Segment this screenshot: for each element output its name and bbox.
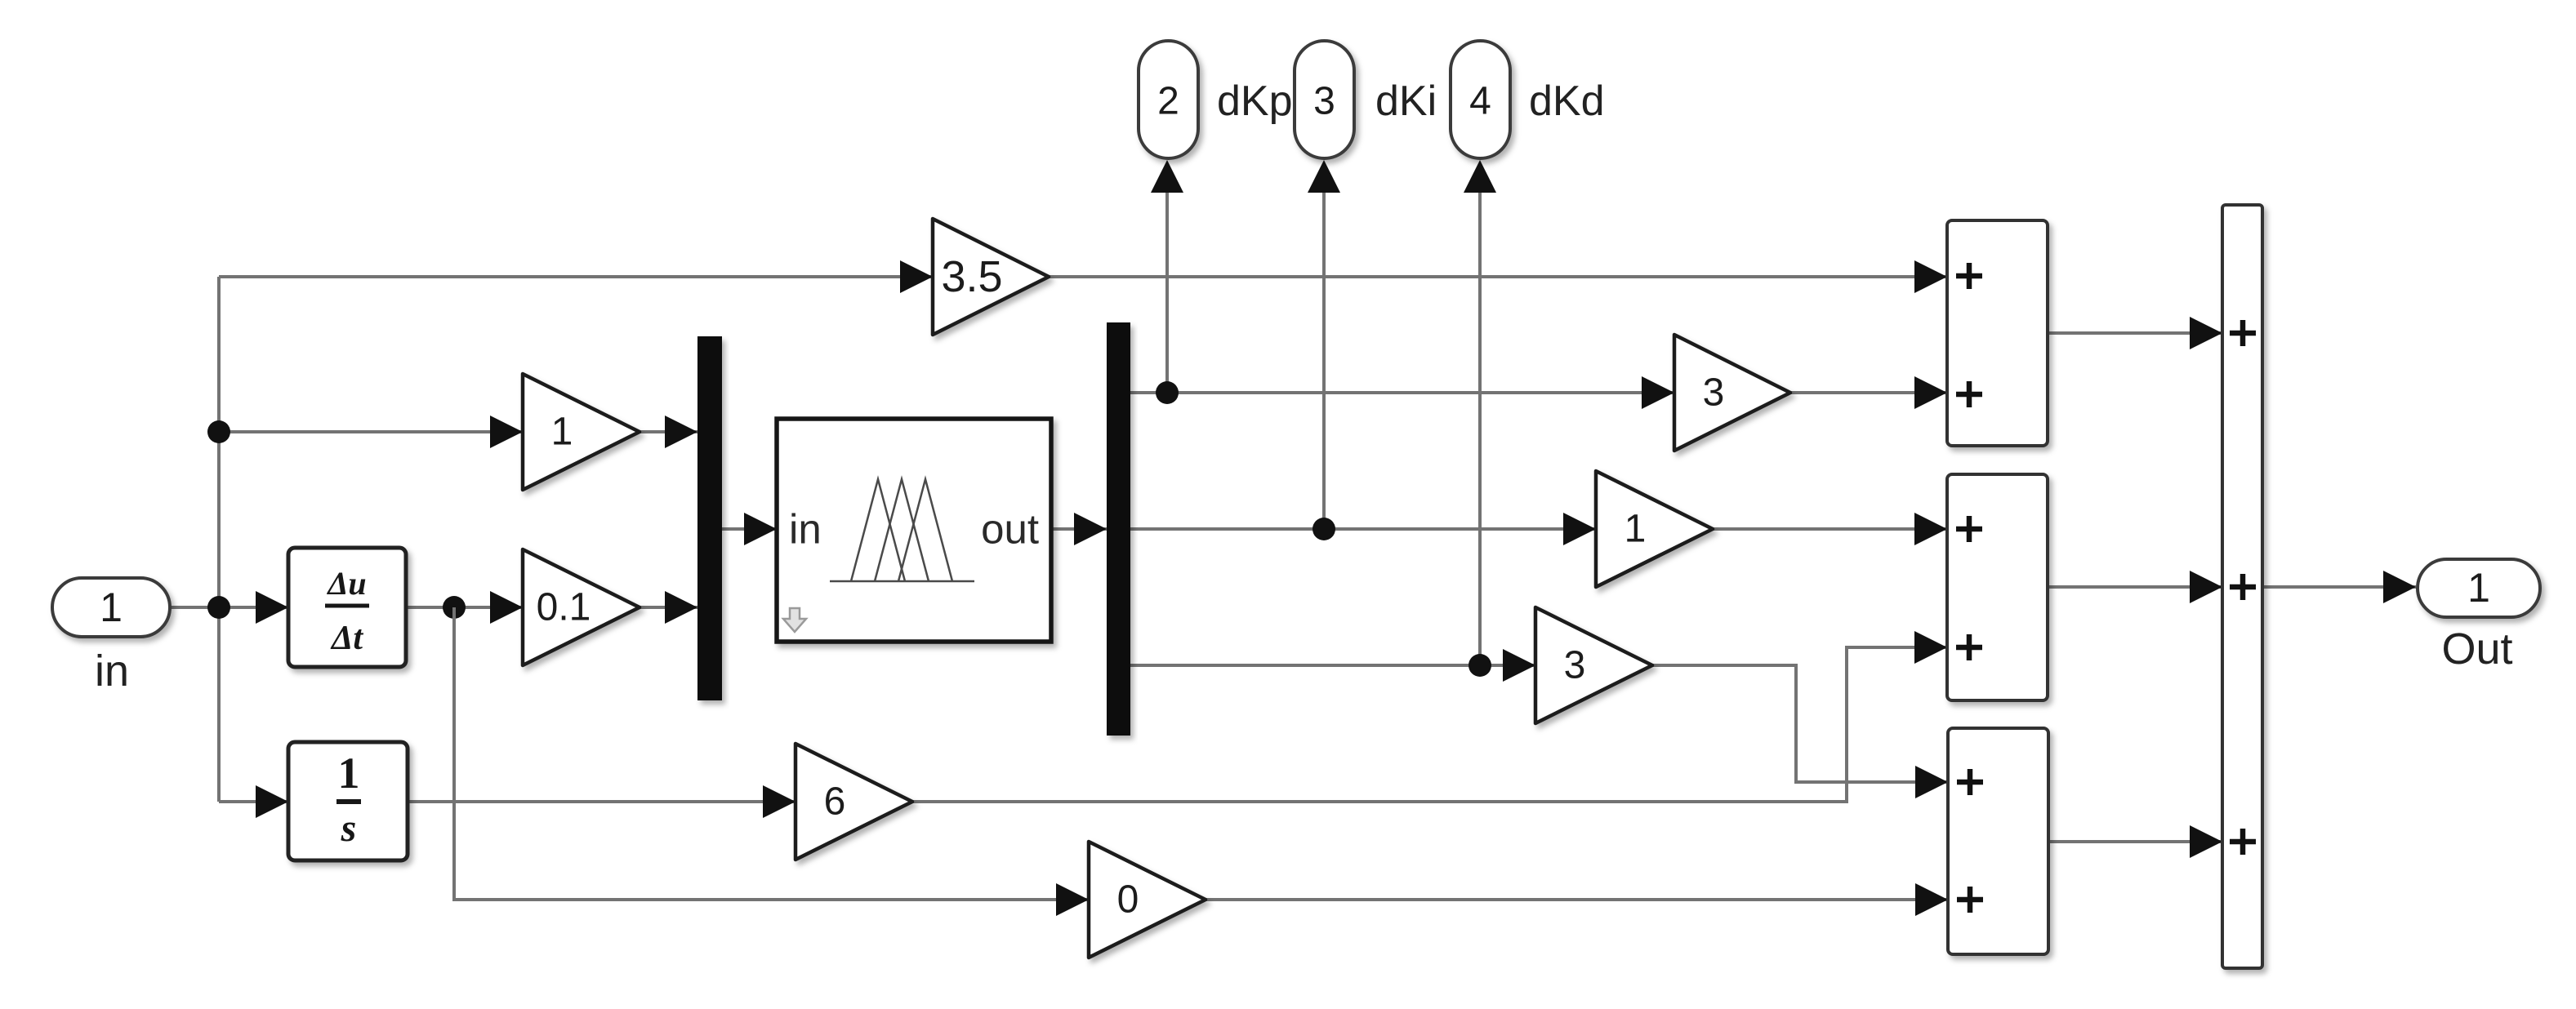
wire: Demux out 1 to Gain G3 (3) (1130, 376, 1674, 409)
sum Add1 (1947, 220, 2048, 446)
gain K1 (3.5) (933, 219, 1049, 335)
wire: trunk to Integrator 1/s (219, 785, 288, 818)
svg-text:dKd: dKd (1529, 78, 1605, 125)
derivative block Delta-u/Delta-t (288, 548, 406, 667)
svg-text:s: s (341, 807, 357, 850)
gain G2 (0.1) (523, 549, 640, 665)
wire: Mux out to Fuzzy Logic Controller in (722, 513, 777, 545)
svg-text:Δu: Δu (326, 565, 366, 602)
gain G1 (1) (523, 374, 640, 490)
wire: Integrator out to Gain G6 (6) (409, 785, 796, 818)
wire: Gain G2 out to Mux input 2 (640, 591, 697, 624)
fuzzy logic controller U1 (777, 419, 1051, 642)
gain G7 (0) (1089, 842, 1206, 958)
junction: Demux out 2 / dKi tap (1313, 518, 1335, 540)
svg-text:in: in (789, 506, 822, 553)
wire: Gain G1 out to Mux input 1 (640, 416, 697, 448)
svg-text:dKi: dKi (1375, 78, 1437, 125)
wire: Add3 out to Add4 input 3 (2048, 825, 2222, 858)
junction: Demux out 3 / dKd tap (1468, 654, 1491, 677)
svg-text:3: 3 (1564, 644, 1586, 687)
svg-text:0: 0 (1117, 878, 1139, 922)
outport 2 (dKp) (1139, 41, 1293, 158)
inport 1 (in) (52, 578, 170, 696)
wire: trunk to Gain K1 (3.5) (219, 260, 933, 293)
svg-text:out: out (981, 506, 1039, 553)
svg-text:1: 1 (551, 411, 573, 454)
wire: trunk to Delta-u/Delta-t block (219, 591, 288, 624)
gain G3 (3) (1674, 335, 1790, 451)
svg-text:3: 3 (1313, 80, 1335, 123)
svg-text:1: 1 (2467, 565, 2490, 611)
wire: Gain G7 out to Add3 input 2 (1206, 883, 1948, 916)
junction: trunk / Gain G1 branch (207, 420, 230, 443)
outport 4 (dKd) (1451, 41, 1605, 158)
svg-text:Δt: Δt (330, 620, 363, 657)
wire: Gain G6 out to Add2 input 2 (912, 631, 1947, 802)
wire: Delta-u/Delta-t out to Gain G2 (0.1) (406, 591, 523, 624)
svg-text:3.5: 3.5 (941, 252, 1002, 301)
wire: Gain G4 out to Add2 input 1 (1713, 513, 1947, 545)
svg-text:4: 4 (1469, 80, 1491, 123)
svg-text:in: in (95, 647, 129, 696)
outport 1 (Out) (2418, 559, 2540, 673)
wire: trunk vertical (217, 277, 221, 802)
svg-text:Out: Out (2441, 625, 2512, 673)
sum Add2 (1947, 474, 2048, 700)
junction: trunk / In1 (207, 596, 230, 619)
svg-text:2: 2 (1157, 80, 1179, 123)
integrator block 1/s (288, 742, 408, 860)
wire: tap to outport dKd (1464, 160, 1496, 665)
wire: tap to outport dKp (1151, 160, 1183, 393)
wire: Add2 out to Add4 input 2 (2048, 571, 2222, 603)
svg-text:6: 6 (824, 780, 846, 824)
junction: Demux out 1 / dKp tap (1156, 381, 1179, 404)
svg-text:0.1: 0.1 (537, 586, 591, 629)
svg-text:1: 1 (338, 749, 360, 798)
gain G6 (6) (796, 744, 912, 860)
wire: Add4 out to outport Out (2262, 571, 2416, 603)
sum Add3 (1948, 728, 2048, 954)
wire: tap to outport dKi (1308, 160, 1340, 529)
wire: Gain G5 out to Add3 input 1 (1652, 665, 1948, 798)
svg-text:1: 1 (100, 585, 123, 630)
wire: Demux out 3 to Gain G5 (3) (1130, 649, 1535, 682)
wire: In1 to trunk junction (170, 606, 219, 609)
outport 3 (dKi) (1295, 41, 1437, 158)
wire: Demux out 2 to Gain G4 (1) (1130, 513, 1596, 545)
gain G4 (1) (1596, 471, 1713, 587)
svg-text:dKp: dKp (1217, 78, 1293, 125)
gain G5 (3) (1535, 607, 1652, 723)
svg-text:3: 3 (1703, 371, 1725, 415)
junction: derivative out branch (443, 596, 466, 619)
demux (1107, 322, 1130, 736)
sum Add4 (final) (2222, 205, 2262, 968)
wire: trunk to Gain G1 (1) (219, 416, 523, 448)
wire: derivative branch to Gain G7 (0) (454, 607, 1089, 916)
wire: Add1 out to Add4 input 1 (2048, 317, 2222, 349)
wire: Gain G3 out to Add1 input 2 (1790, 376, 1947, 409)
wire: Gain K1 out to Add1 input 1 (1049, 260, 1947, 293)
wire: Fuzzy Logic Controller out to Demux (1051, 513, 1107, 545)
mux (697, 336, 722, 700)
svg-text:1: 1 (1624, 508, 1647, 551)
